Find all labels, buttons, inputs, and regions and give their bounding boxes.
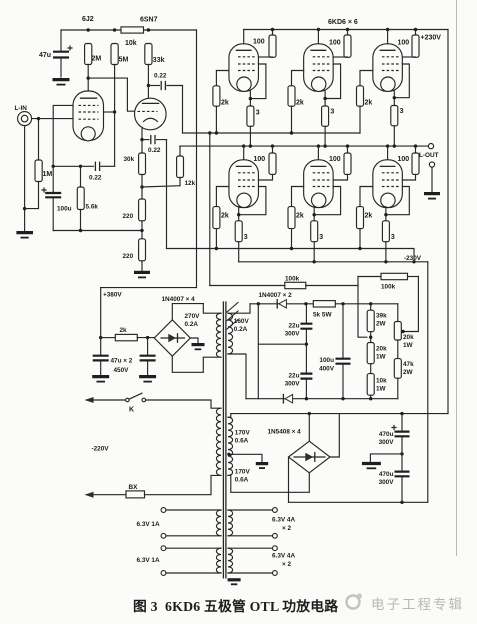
wire grid lead upper 2 (292, 71, 304, 86)
wire bias bottom rail (246, 397, 398, 400)
tube V1 6J2 envelope (73, 91, 104, 141)
svg-text:300V: 300V (379, 439, 395, 446)
wire 6SN7 plate lead (147, 65, 150, 104)
resistor 2k grid upper 2 (288, 86, 304, 133)
wire 170V bottom lead (228, 473, 309, 492)
resistor 100 screen upper 3 (398, 30, 420, 58)
resistor 3 upper 2 (322, 106, 335, 146)
tube V8 6KD6 lower 3 (373, 146, 403, 208)
wire grid lead lower 3 (360, 187, 373, 207)
resistor 1M (25, 119, 53, 209)
ground 47u first (92, 377, 109, 382)
wire 6J2 plate lead (87, 65, 90, 99)
wire grid lead lower 2 (292, 187, 304, 207)
svg-text:400V: 400V (319, 366, 335, 373)
svg-text:6SN7: 6SN7 (140, 17, 158, 24)
diode D2 (283, 395, 292, 403)
ground for 47u (53, 80, 70, 85)
resistor divider 47k 2W (394, 359, 414, 399)
watermark logo (344, 590, 366, 612)
bridge rectifier B2 (289, 441, 331, 473)
resistor 2k grid lower 2 (288, 207, 304, 249)
svg-text:2k: 2k (365, 100, 373, 107)
svg-text:1M: 1M (43, 171, 53, 178)
svg-text:1N5408 × 4: 1N5408 × 4 (268, 429, 302, 436)
node 30k 12k junction (140, 185, 180, 188)
svg-text:2k: 2k (221, 213, 229, 220)
svg-text:0.22: 0.22 (89, 175, 102, 182)
svg-text:100: 100 (398, 156, 410, 163)
resistor 100k feedback 2 (358, 273, 418, 290)
svg-text:3: 3 (256, 110, 260, 117)
wire grid lead upper 1 (216, 71, 229, 86)
tube V3 6KD6 upper 1 (229, 30, 259, 92)
wire coupling 6J2 plate to 6SN7 grid (88, 78, 134, 111)
resistor chain 10k 1W (367, 374, 387, 399)
svg-text:170V: 170V (235, 469, 251, 476)
wire cathode lead lower 3 (384, 207, 387, 221)
resistor chain 20k 1W (367, 343, 387, 374)
resistor divider 20k 1W right (394, 304, 414, 359)
winding 6.3V 4A second (228, 548, 233, 573)
svg-text:2k: 2k (365, 213, 373, 220)
capacitor 22u 300V upper (285, 304, 313, 344)
resistor 33k (145, 44, 165, 65)
tube V6 6KD6 lower 1 (229, 146, 259, 208)
resistor 10k (121, 27, 144, 47)
resistor 3 upper 3 (391, 106, 404, 147)
wire V1 cathode rail (52, 165, 94, 168)
svg-text:2k: 2k (120, 327, 128, 334)
label 6.3V 1A first (137, 521, 160, 528)
wire cathode lead upper 2 (323, 91, 326, 106)
wire jack ground line (23, 126, 26, 231)
wire secondary AC top (231, 412, 448, 415)
svg-text:3: 3 (391, 234, 395, 241)
wire screen bus 5M (114, 65, 116, 167)
tube V1 cathode (81, 127, 95, 141)
ground 220 chain (134, 272, 150, 277)
wire output rail (180, 144, 429, 147)
capacitor 47u x 2 first (93, 338, 109, 375)
svg-text:-220V: -220V (92, 446, 110, 453)
capacitor 47u (39, 30, 72, 77)
svg-text:1N4007 × 2: 1N4007 × 2 (259, 292, 293, 299)
svg-text:22u: 22u (288, 373, 299, 380)
label 170V 0.6A lower (235, 469, 251, 484)
svg-text:33k: 33k (153, 57, 165, 64)
svg-text:100k: 100k (381, 284, 396, 291)
wire 6.3V leads right (228, 508, 277, 576)
svg-text:0.2A: 0.2A (185, 321, 199, 328)
wire bridge B1 top lead (172, 304, 203, 320)
svg-text:6J2: 6J2 (82, 16, 94, 23)
resistor 100 screen upper 1 (253, 30, 276, 58)
ground L-IN (16, 233, 33, 238)
svg-text:300V: 300V (285, 331, 301, 338)
svg-text:0.22: 0.22 (154, 73, 167, 80)
capacitor 0.22 screen bypass (89, 162, 115, 181)
svg-text:0.6A: 0.6A (235, 437, 249, 444)
svg-text:3: 3 (330, 109, 334, 116)
capacitor 0.22 lower drive (142, 136, 167, 154)
svg-text:1W: 1W (376, 354, 387, 361)
svg-text:BX: BX (129, 484, 139, 491)
svg-text:2k: 2k (221, 100, 229, 107)
svg-text:3: 3 (244, 234, 248, 241)
svg-text:5M: 5M (119, 57, 129, 64)
svg-text:2W: 2W (403, 369, 414, 376)
wire -230V bus (427, 262, 429, 503)
connector L-OUT (419, 144, 439, 193)
connector L-IN jack (15, 105, 32, 126)
resistor 100 screen lower 3 (398, 146, 420, 180)
svg-text:5k 5W: 5k 5W (313, 312, 332, 319)
label 170V 0.6A upper (235, 430, 251, 445)
tube V1 grids (79, 105, 99, 119)
resistor 2k grid lower 1 (213, 207, 229, 249)
resistor 2M (85, 44, 102, 65)
label 1N4007 x 2 (259, 292, 293, 299)
svg-text:160V: 160V (234, 318, 250, 325)
resistor 100k feedback 1 (210, 276, 358, 289)
svg-text:170V: 170V (235, 430, 251, 437)
resistor 220 first (123, 187, 146, 239)
svg-text:3: 3 (400, 108, 404, 115)
wire grid lead upper 3 (360, 71, 373, 86)
svg-text:6.3V 4A: 6.3V 4A (272, 553, 295, 560)
wire suppressor tie upper 1 (250, 64, 266, 99)
wire -230V rail (239, 260, 428, 263)
tube V1 plate bar (81, 97, 97, 99)
resistor 3 lower 2 (311, 221, 324, 262)
wire +380V rail (101, 287, 197, 289)
watermark text (371, 593, 464, 613)
wire feedback bus (209, 133, 211, 286)
wire divider left vertical (358, 277, 367, 338)
label 1N4007 x 4 (162, 296, 196, 303)
svg-text:2k: 2k (296, 100, 304, 107)
winding 160V 0.2A (228, 313, 233, 354)
svg-text:450V: 450V (114, 367, 130, 374)
tube V4 6KD6 upper 2 (304, 30, 334, 92)
wire +230V right bus (447, 30, 449, 414)
wire suppressor tie upper 2 (325, 64, 341, 99)
node driver rail junctions (87, 28, 151, 31)
wire bus lower drive (166, 140, 168, 249)
capacitor 47u x 2 second (140, 338, 156, 375)
svg-text:+230V: +230V (421, 35, 442, 42)
wire tap to divider (401, 277, 418, 334)
wire bridge B2 top lead (308, 414, 310, 442)
label 6J2 (82, 16, 94, 23)
wire 170V center tap (227, 453, 268, 469)
resistor 3 lower 1 (235, 221, 248, 262)
svg-text:100: 100 (398, 40, 410, 47)
label -230V (404, 255, 422, 262)
wire cathode lead upper 3 (393, 91, 396, 106)
winding 6.3V 1A first (216, 510, 221, 536)
svg-text:470u: 470u (379, 431, 394, 438)
wire grid lead lower 1 (216, 187, 229, 207)
wire bias line (250, 302, 398, 305)
wire suppressor tie lower 1 (239, 187, 266, 215)
ground 47u second (139, 377, 156, 382)
ground L-OUT (424, 194, 440, 199)
label 6.3V 4A x2 second (272, 553, 295, 569)
capacitor 470u 300V lower (379, 454, 410, 502)
diode D1 (277, 300, 286, 308)
wire lower grid drive rail (167, 247, 415, 262)
resistor 100 screen lower 1 (254, 146, 277, 180)
svg-text:0.2A: 0.2A (234, 326, 248, 333)
ground transformer core (228, 580, 241, 585)
svg-text:2k: 2k (296, 213, 304, 220)
svg-text:100: 100 (253, 39, 265, 46)
wire B+ driver rail (61, 29, 197, 31)
capacitor 100u 400V (319, 304, 350, 399)
wire bridge B1 bottom lead (172, 356, 221, 372)
resistor 2k grid upper 1 (213, 86, 229, 133)
label 6.3V 1A second (137, 557, 160, 564)
svg-text:1N4007 × 4: 1N4007 × 4 (162, 296, 196, 303)
svg-text:100k: 100k (285, 276, 300, 283)
svg-text:100: 100 (329, 156, 341, 163)
svg-text:30k: 30k (124, 156, 135, 163)
svg-text:47u: 47u (39, 52, 51, 59)
svg-text:220: 220 (123, 253, 134, 260)
svg-text:300V: 300V (285, 381, 301, 388)
svg-text:47u × 2: 47u × 2 (111, 358, 133, 365)
capacitor 0.22 upper drive (148, 73, 182, 90)
svg-text:6.3V 4A: 6.3V 4A (272, 517, 295, 524)
wire suppressor tie lower 3 (386, 187, 409, 215)
capacitor 470u 300V upper (379, 414, 410, 454)
tube V2 plate bar (143, 102, 159, 104)
caption figure title (133, 595, 333, 615)
label 6SN7 (140, 17, 158, 24)
resistor 3 lower 3 (382, 221, 395, 262)
svg-text:100u: 100u (57, 206, 72, 213)
resistor 30k (124, 140, 146, 187)
node 470u midpoint ground (362, 452, 404, 468)
wire B+ driver bus (196, 30, 198, 288)
svg-text:470u: 470u (379, 471, 394, 478)
label 270V 0.2A (185, 313, 201, 328)
switch K and mains arrow (85, 393, 222, 413)
svg-text:6.3V 1A: 6.3V 1A (137, 521, 160, 528)
label 6KD6 x 6 (328, 19, 358, 26)
wire V1 suppressor tie (53, 105, 73, 166)
wire 6.3V leads left (161, 508, 221, 576)
svg-text:+380V: +380V (103, 292, 122, 299)
svg-text:× 2: × 2 (282, 561, 292, 568)
svg-text:6.3V 1A: 6.3V 1A (137, 557, 160, 564)
label 47u x 2 450V (111, 358, 133, 374)
transformer core (223, 302, 238, 578)
svg-text:10k: 10k (125, 40, 137, 47)
resistor chain 39k 2W (367, 304, 387, 343)
svg-text:220: 220 (123, 213, 134, 220)
winding 270V primary-side (216, 313, 221, 357)
wire bridge B2 left lead (288, 457, 290, 502)
node feedback tap (140, 229, 143, 232)
label -220V (92, 446, 110, 453)
resistor 2k filter (101, 327, 155, 341)
svg-text:20k: 20k (403, 334, 414, 341)
svg-text:5.6k: 5.6k (86, 204, 99, 211)
svg-text:12k: 12k (185, 180, 196, 187)
wire 6SN7 cathode lead (140, 127, 143, 141)
wire minus rail PSU (289, 501, 428, 504)
svg-text:22u: 22u (288, 323, 299, 330)
svg-text:39k: 39k (376, 313, 387, 320)
resistor 220 second (123, 239, 146, 271)
svg-text:47k: 47k (403, 361, 414, 368)
svg-text:300V: 300V (379, 479, 395, 486)
page edge shadow line (456, 0, 458, 556)
tube V2 grid (138, 110, 158, 112)
fuse BX and mains arrow (85, 475, 222, 498)
resistor 100 screen lower 2 (329, 146, 351, 180)
resistor 2k grid lower 3 (357, 207, 373, 249)
capacitor 100u (42, 166, 72, 230)
wire input to grid (32, 117, 73, 120)
tube V2 cathode arc (144, 118, 158, 121)
resistor 100 screen upper 2 (329, 30, 351, 58)
wire 170V top lead (228, 414, 231, 418)
label +380V (103, 292, 122, 299)
svg-text:100: 100 (254, 156, 266, 163)
winding 220V mains primary (216, 408, 221, 475)
svg-text:2M: 2M (92, 56, 102, 63)
wire V1 screen lead (104, 110, 117, 113)
svg-text:L-OUT: L-OUT (419, 152, 439, 159)
svg-text:0.22: 0.22 (148, 147, 161, 154)
tube V2 6SN7 envelope (135, 98, 167, 130)
winding 6.3V 1A second (216, 548, 221, 573)
svg-text:-230V: -230V (404, 255, 422, 262)
svg-text:L-IN: L-IN (15, 105, 28, 112)
resistor 3 upper 1 (247, 106, 260, 146)
wire cathode lead upper 1 (249, 91, 252, 106)
svg-text:0.6A: 0.6A (235, 476, 249, 483)
wire cathode lead lower 2 (313, 207, 316, 221)
svg-text:1W: 1W (376, 386, 387, 393)
svg-text:270V: 270V (185, 313, 201, 320)
wire +230V top rail (244, 28, 448, 31)
label +230V (421, 35, 442, 42)
node 22u midpoint (258, 343, 308, 346)
resistor 2k grid upper 3 (357, 86, 373, 133)
svg-text:10k: 10k (376, 378, 387, 385)
resistor 5M (111, 44, 128, 65)
wire cathode bottom rail (53, 229, 142, 232)
label 160V 0.2A (234, 318, 250, 333)
svg-text:3: 3 (319, 234, 323, 241)
svg-text:1W: 1W (403, 342, 414, 349)
resistor 12k (177, 146, 196, 187)
wire suppressor tie lower 2 (314, 187, 340, 215)
svg-text:20k: 20k (376, 346, 387, 353)
wire bus upper drive (182, 86, 184, 134)
resistor 5k 5W (313, 301, 335, 319)
wire bridge B2 right lead (330, 414, 339, 457)
svg-text:100u: 100u (319, 357, 334, 364)
winding 6.3V 4A first (228, 510, 233, 536)
wire 270V winding top lead (203, 304, 221, 314)
wire cathode lead lower 1 (237, 207, 240, 221)
svg-text:× 2: × 2 (282, 525, 292, 532)
label 1N5408 x 4 (268, 429, 302, 436)
wire upper grid drive rail (183, 131, 361, 134)
svg-text:2W: 2W (376, 321, 387, 328)
wire suppressor tie upper 3 (394, 64, 409, 98)
wire +380V left vertical (99, 288, 102, 340)
bridge rectifier B1 (154, 320, 190, 356)
wire bias left return (257, 304, 259, 399)
label 6.3V 4A x2 first (272, 517, 295, 533)
svg-text:100: 100 (329, 40, 341, 47)
wire 160V bottom lead (228, 354, 246, 399)
svg-text:K: K (129, 407, 134, 414)
winding 170V 0.6A x2 (228, 417, 233, 475)
capacitor 22u 300V lower (285, 344, 313, 399)
wire bridge B1 minus bar (190, 338, 204, 349)
resistor 5.6k (77, 166, 98, 230)
wire 160V top lead (228, 304, 250, 313)
svg-text:6KD6 × 6: 6KD6 × 6 (328, 19, 358, 26)
tube V5 6KD6 upper 3 (373, 30, 403, 92)
tube V7 6KD6 lower 2 (304, 146, 334, 208)
